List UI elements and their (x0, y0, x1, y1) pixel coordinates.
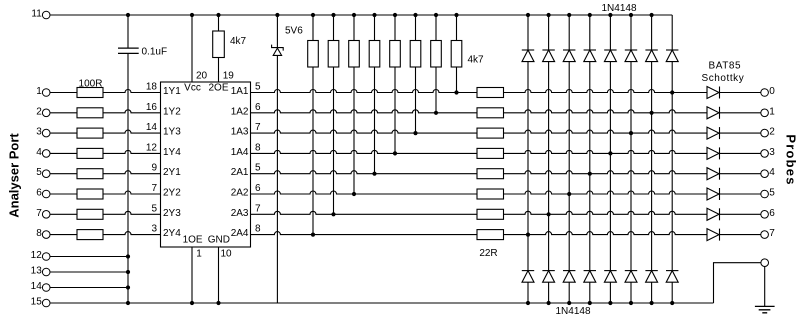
wire rail to top clamp diode column 7 (651, 15, 653, 50)
wire rail to top clamp diode column 3 (568, 15, 570, 50)
svg-text:7: 7 (255, 203, 261, 214)
wire rail to top clamp diode column 1 (527, 15, 529, 50)
wire series resistor row 3 to Schottky diode (504, 130, 708, 133)
junction top rail / diode column 2 (547, 13, 551, 17)
wire rail to resistor 4k7 (218, 15, 220, 31)
wire clamp column 4 (vertical) (589, 62, 591, 271)
svg-text:13: 13 (31, 265, 43, 276)
svg-text:0.1uF: 0.1uF (142, 46, 168, 57)
wire clamp column 7 (vertical) (651, 62, 653, 271)
wire resistor to IC pin 5 (hops ground bus) (103, 211, 161, 214)
wire Schottky diode to probe terminal 7 (720, 234, 762, 236)
svg-text:2Y2: 2Y2 (163, 188, 181, 199)
junction ground rail / pin 1 (190, 301, 194, 305)
wire IC pin 5 to series resistor row 1 (251, 90, 478, 93)
svg-text:10: 10 (220, 249, 232, 260)
diode BAT85 row 7 (707, 208, 719, 220)
svg-text:14: 14 (31, 281, 43, 292)
wire Schottky diode to probe terminal 3 (720, 152, 762, 154)
terminal 13 (ground) (42, 268, 50, 276)
wire series resistor row 7 to Schottky diode (504, 211, 708, 214)
wire terminal 7 to resistor (50, 213, 77, 215)
svg-text:14: 14 (146, 122, 158, 133)
ground symbol (755, 306, 775, 312)
junction top rail / diode column 1 (526, 13, 530, 17)
wire terminal 1 to resistor (50, 92, 77, 94)
terminal probe 6 (761, 211, 769, 219)
resistor 100R row 8 (77, 230, 103, 240)
terminal 11 (+5V) (42, 11, 50, 19)
wire Schottky diode to probe terminal 6 (720, 213, 762, 215)
junction ground bus / terminal 13 (126, 270, 130, 274)
junction pull-up column 2 / row 7 (331, 212, 335, 216)
wire rail to Vcc pin 20 (191, 15, 193, 82)
svg-text:2: 2 (36, 106, 42, 117)
svg-text:19: 19 (223, 71, 235, 82)
junction top rail / pull-up column 3 (352, 13, 356, 17)
svg-text:6: 6 (255, 183, 261, 194)
junction clamp column 7 / row 2 (650, 111, 654, 115)
terminal 14 (ground) (42, 284, 50, 292)
diode 1N4148 top clamp column 4 (584, 49, 596, 51)
resistor 4k7 pull-up column 6 (410, 41, 421, 68)
junction top rail / diode column 6 (629, 13, 633, 17)
terminal probe 0 (761, 89, 769, 97)
wire clamp column 3 (vertical) (568, 62, 570, 271)
junction top rail / zener branch (275, 13, 279, 17)
junction top rail / pull-up column 1 (311, 13, 315, 17)
wire Schottky diode to probe terminal 4 (720, 173, 762, 175)
svg-text:0: 0 (769, 86, 775, 97)
junction pull-up column 1 / row 8 (311, 233, 315, 237)
wire Schottky diode to probe terminal 2 (720, 132, 762, 134)
svg-text:1A1: 1A1 (231, 86, 249, 97)
svg-text:12: 12 (31, 250, 43, 261)
svg-text:1Y4: 1Y4 (163, 147, 181, 158)
svg-text:2OE: 2OE (208, 83, 228, 94)
terminal probe 7 (761, 231, 769, 239)
svg-text:1N4148: 1N4148 (602, 3, 637, 14)
junction pull-up column 8 / row 1 (454, 90, 458, 94)
svg-text:1A4: 1A4 (231, 147, 249, 158)
svg-text:2A1: 2A1 (231, 167, 249, 178)
resistor 4k7 pull-up column 3 (349, 41, 360, 68)
wire clamp column 2 (vertical) (548, 62, 550, 271)
wire rail to top clamp diode column 2 (548, 15, 550, 50)
junction pull-up column 3 / row 6 (352, 192, 356, 196)
svg-text:5: 5 (151, 203, 157, 214)
terminal 5 analyser port (42, 170, 50, 178)
wire resistor to IC pin 16 (hops ground bus) (103, 110, 161, 113)
diode BAT85 row 3 (707, 127, 719, 139)
terminal 7 analyser port (42, 211, 50, 219)
junction top rail / pull-up column 2 (331, 13, 335, 17)
svg-text:1A2: 1A2 (231, 106, 249, 117)
wire pull-up column 4 down to row 5 (374, 67, 376, 174)
resistor 4k7 pull-up column 5 (390, 41, 401, 68)
wire resistor to IC pin 7 (hops ground bus) (103, 191, 161, 194)
diode BAT85 row 1 (707, 87, 719, 99)
wire ground rail (bottom) (50, 302, 713, 304)
junction ground bus / terminal 12 (126, 254, 130, 258)
resistor 22R row 1 (477, 88, 504, 98)
terminal 4 analyser port (42, 150, 50, 158)
svg-text:22R: 22R (479, 248, 497, 259)
wire Schottky diode to probe terminal 0 (720, 92, 762, 94)
wire bottom clamp diode column 5 to ground rail (609, 282, 611, 303)
svg-text:2A2: 2A2 (231, 188, 249, 199)
svg-text:Probes: Probes (784, 134, 799, 185)
svg-text:6: 6 (36, 188, 42, 199)
wire pull-up column 5 down to row 4 (394, 67, 396, 153)
svg-text:2: 2 (769, 127, 775, 138)
wire clamp column 5 (vertical) (609, 62, 611, 271)
junction ground rail / clamp column 3 (567, 301, 571, 305)
resistor 22R row 4 (477, 148, 504, 158)
junction ground rail / clamp column 5 (608, 301, 612, 305)
diode 1N4148 bottom clamp column 1 (522, 270, 534, 272)
svg-text:1Y2: 1Y2 (163, 106, 181, 117)
svg-text:GND: GND (208, 235, 230, 246)
wire resistor to IC pin 14 (hops ground bus) (103, 130, 161, 133)
wire IC pin 5 to series resistor row 5 (251, 171, 478, 174)
svg-text:15: 15 (31, 296, 43, 307)
terminal 2 analyser port (42, 109, 50, 117)
wire series resistor row 8 to Schottky diode (504, 232, 708, 235)
wire rail to pull-up resistor column 4 (374, 15, 376, 41)
svg-text:8: 8 (36, 228, 42, 239)
junction pull-up column 7 / row 2 (434, 111, 438, 115)
diode 1N4148 top clamp column 2 (542, 49, 554, 51)
junction top rail / diode column 5 (608, 13, 612, 17)
svg-text:20: 20 (196, 71, 208, 82)
wire resistor to IC pin 9 (hops ground bus) (103, 171, 161, 174)
wire rail to top clamp diode column 5 (609, 15, 611, 50)
diode 1N4148 bottom clamp column 5 (604, 270, 616, 272)
resistor 4k7 pull-up column 4 (369, 41, 380, 68)
terminal 15 (ground) (42, 299, 50, 307)
junction pull-up column 6 / row 3 (413, 131, 417, 135)
terminal 1 analyser port (42, 89, 50, 97)
svg-text:5: 5 (255, 163, 261, 174)
wire terminal 2 to resistor (50, 112, 77, 114)
svg-text:16: 16 (146, 102, 158, 113)
wire rail to pull-up resistor column 8 (456, 15, 458, 41)
wire rail to top clamp diode column 4 (589, 15, 591, 50)
diode BAT85 row 2 (707, 107, 719, 119)
diode 1N4148 bottom clamp column 2 (542, 270, 554, 272)
svg-text:9: 9 (151, 163, 157, 174)
junction clamp column 3 / row 6 (567, 192, 571, 196)
svg-text:1: 1 (36, 86, 42, 97)
junction ground rail / clamp column 6 (629, 301, 633, 305)
wire zener to ground rail (276, 55, 278, 303)
junction clamp column 6 / row 3 (629, 131, 633, 135)
wire 1OE pin 1 to ground rail (191, 247, 193, 303)
terminal 6 analyser port (42, 190, 50, 198)
wire IC pin 8 to series resistor row 8 (251, 232, 478, 235)
junction clamp column 8 / row 1 (670, 90, 674, 94)
diode 1N4148 bottom clamp column 4 (584, 270, 596, 272)
wire rail to pull-up resistor column 1 (312, 15, 314, 41)
wire rail to top clamp diode column 8 (671, 15, 673, 50)
junction top rail / 4k7 pull-up (216, 13, 220, 17)
svg-text:3: 3 (151, 224, 157, 235)
diode BAT85 row 6 (707, 188, 719, 200)
junction top rail / pull-up column 8 (454, 13, 458, 17)
wire terminal 8 to resistor (50, 234, 77, 236)
junction pull-up column 4 / row 5 (372, 172, 376, 176)
junction top rail / pull-up column 4 (372, 13, 376, 17)
wire series resistor row 1 to Schottky diode (504, 90, 708, 93)
junction top rail / diode column 3 (567, 13, 571, 17)
wire rail to pull-up resistor column 6 (415, 15, 417, 41)
wire clamp column 1 (vertical) (527, 62, 529, 271)
wire ground rail up to probe ground terminal (714, 263, 762, 303)
diode BAT85 row 8 (707, 229, 719, 241)
junction clamp column 2 / row 7 (547, 212, 551, 216)
diode 1N4148 bottom clamp column 7 (645, 270, 657, 272)
terminal probe 4 (761, 170, 769, 178)
diode 1N4148 top clamp column 7 (645, 49, 657, 51)
junction ground rail / clamp column 8 (670, 301, 674, 305)
wire GND pin 10 to ground rail (218, 247, 220, 303)
terminal probe 1 (761, 109, 769, 117)
junction clamp column 5 / row 4 (608, 151, 612, 155)
resistor 4k7 pull-up column 7 (431, 41, 442, 68)
junction clamp column 1 / row 8 (526, 233, 530, 237)
resistor 22R row 8 (477, 230, 504, 240)
wire bottom clamp diode column 6 to ground rail (630, 282, 632, 303)
svg-text:4k7: 4k7 (468, 55, 485, 66)
wire pull-up column 3 down to row 6 (353, 67, 355, 194)
wire resistor to IC pin 3 (hops ground bus) (103, 232, 161, 235)
terminal 3 analyser port (42, 129, 50, 137)
svg-text:4: 4 (769, 167, 775, 178)
wire clamp column 8 (vertical) (671, 62, 673, 271)
resistor 22R row 6 (477, 189, 504, 199)
svg-text:6: 6 (255, 102, 261, 113)
svg-text:6: 6 (769, 208, 775, 219)
svg-text:Analyser Port: Analyser Port (7, 133, 22, 218)
wire probe ground terminal to ground symbol (764, 266, 766, 306)
wire rail to pull-up resistor column 7 (435, 15, 437, 41)
svg-text:100R: 100R (79, 79, 103, 90)
resistor 4k7 pull-up column 1 (308, 41, 319, 68)
wire series resistor row 2 to Schottky diode (504, 110, 708, 113)
terminal probe ground (761, 259, 769, 267)
junction top rail / diode column 7 (650, 13, 654, 17)
wire IC pin 7 to series resistor row 7 (251, 211, 478, 214)
wire resistor 4k7 to pin 19 (218, 58, 220, 83)
wire Schottky diode to probe terminal 5 (720, 193, 762, 195)
diode BAT85 row 5 (707, 168, 719, 180)
svg-text:7: 7 (255, 122, 261, 133)
wire pull-up column 6 down to row 3 (415, 67, 417, 133)
svg-text:3: 3 (36, 127, 42, 138)
resistor 4k7 pull-up column 2 (328, 41, 339, 68)
wire bottom clamp diode column 7 to ground rail (651, 282, 653, 303)
wire pull-up column 2 down to row 7 (333, 67, 335, 214)
resistor 100R row 4 (77, 148, 103, 158)
svg-text:2A3: 2A3 (231, 208, 249, 219)
svg-text:12: 12 (146, 142, 158, 153)
svg-text:1Y1: 1Y1 (163, 86, 181, 97)
terminal probe 5 (761, 190, 769, 198)
wire Schottky diode to probe terminal 1 (720, 112, 762, 114)
diode 1N4148 bottom clamp column 6 (625, 270, 637, 272)
resistor 100R row 5 (77, 169, 103, 179)
svg-text:5: 5 (769, 188, 775, 199)
wire bottom clamp diode column 1 to ground rail (527, 282, 529, 303)
resistor 22R row 2 (477, 108, 504, 118)
wire rail to pull-up resistor column 5 (394, 15, 396, 41)
wire resistor to IC pin 18 (hops ground bus) (103, 90, 161, 93)
junction top rail / Vcc pin 20 (190, 13, 194, 17)
svg-text:7: 7 (36, 208, 42, 219)
wire series resistor row 6 to Schottky diode (504, 191, 708, 194)
resistor 100R row 6 (77, 189, 103, 199)
junction top rail / pull-up column 7 (434, 13, 438, 17)
svg-text:4: 4 (36, 147, 42, 158)
resistor 22R row 3 (477, 128, 504, 138)
wire rail to pull-up resistor column 3 (353, 15, 355, 41)
resistor 4k7 pull-up column 8 (451, 41, 462, 68)
wire IC pin 6 to series resistor row 2 (251, 110, 478, 113)
resistor 100R row 2 (77, 108, 103, 118)
terminal probe 2 (761, 129, 769, 137)
diode 1N4148 top clamp column 6 (625, 49, 637, 51)
wire rail to pull-up resistor column 2 (333, 15, 335, 41)
resistor 22R row 7 (477, 209, 504, 219)
wire terminal 13 to ground bus (50, 271, 128, 273)
junction ground rail / clamp column 4 (588, 301, 592, 305)
junction ground rail / clamp column 1 (526, 301, 530, 305)
svg-text:Vcc: Vcc (184, 83, 201, 94)
resistor 4k7 (2OE pull-up) (213, 31, 225, 58)
diode 1N4148 bottom clamp column 8 (666, 270, 678, 272)
svg-text:2Y4: 2Y4 (163, 228, 181, 239)
wire terminal 12 to ground bus (50, 256, 128, 258)
wire pull-up column 7 down to row 2 (435, 67, 437, 113)
wire terminal 4 to resistor (50, 152, 77, 154)
wire series resistor row 4 to Schottky diode (504, 150, 708, 153)
svg-text:BAT85: BAT85 (709, 61, 742, 72)
resistor 100R row 3 (77, 128, 103, 138)
wire bottom clamp diode column 8 to ground rail (671, 282, 673, 303)
zener diode 5V6 (272, 45, 284, 51)
capacitor C 0.1uF (118, 48, 139, 53)
svg-text:2Y1: 2Y1 (163, 167, 181, 178)
junction ground rail / pin 10 (216, 301, 220, 305)
diode BAT85 row 4 (707, 147, 719, 159)
wire capacitor to ground rail (vertical ground bus) (127, 53, 129, 303)
wire terminal 14 to ground bus (50, 287, 128, 289)
svg-text:1: 1 (769, 106, 775, 117)
terminal 12 (ground) (42, 253, 50, 261)
wire IC pin 6 to series resistor row 6 (251, 191, 478, 194)
wire terminal 5 to resistor (50, 173, 77, 175)
svg-text:8: 8 (255, 224, 261, 235)
wire pull-up column 1 down to row 8 (312, 67, 314, 235)
junction top rail / pull-up column 6 (413, 13, 417, 17)
svg-text:1A3: 1A3 (231, 127, 249, 138)
junction ground bus / ground rail (126, 301, 130, 305)
wire IC pin 7 to series resistor row 3 (251, 130, 478, 133)
wire terminal 3 to resistor (50, 132, 77, 134)
wire clamp column 6 (vertical) (630, 62, 632, 271)
terminal 8 analyser port (42, 231, 50, 239)
wire bottom clamp diode column 2 to ground rail (548, 282, 550, 303)
wire resistor to IC pin 12 (hops ground bus) (103, 150, 161, 153)
wire bottom clamp diode column 3 to ground rail (568, 282, 570, 303)
wire +5V top rail (50, 14, 672, 16)
junction clamp column 4 / row 5 (588, 172, 592, 176)
diode 1N4148 top clamp column 1 (522, 49, 534, 51)
svg-text:3: 3 (769, 147, 775, 158)
wire IC pin 8 to series resistor row 4 (251, 150, 478, 153)
svg-text:11: 11 (31, 9, 42, 20)
junction pull-up column 5 / row 4 (393, 151, 397, 155)
junction ground bus / terminal 14 (126, 285, 130, 289)
svg-text:8: 8 (255, 142, 261, 153)
wire terminal 6 to resistor (50, 193, 77, 195)
junction top rail / pull-up column 5 (393, 13, 397, 17)
svg-text:5V6: 5V6 (285, 26, 303, 37)
svg-text:5: 5 (255, 82, 261, 93)
diode 1N4148 top clamp column 8 (666, 49, 678, 51)
svg-text:Schottky: Schottky (702, 73, 745, 84)
resistor 22R row 5 (477, 169, 504, 179)
junction top rail / diode column 4 (588, 13, 592, 17)
svg-text:1Y3: 1Y3 (163, 127, 181, 138)
junction ground rail / clamp column 7 (650, 301, 654, 305)
wire rail to capacitor (127, 15, 129, 48)
svg-text:2Y3: 2Y3 (163, 208, 181, 219)
svg-text:1N4148: 1N4148 (556, 306, 591, 317)
diode 1N4148 bottom clamp column 3 (563, 270, 575, 272)
wire rail to zener (276, 15, 278, 48)
svg-text:5: 5 (36, 167, 42, 178)
wire pull-up column 8 down to row 1 (456, 67, 458, 93)
op-amp-style IC body U1 (octal buffer) (161, 82, 251, 247)
svg-text:7: 7 (151, 183, 157, 194)
terminal probe 3 (761, 150, 769, 158)
svg-text:4k7: 4k7 (230, 36, 247, 47)
svg-text:1: 1 (196, 249, 202, 260)
resistor 100R row 7 (77, 209, 103, 219)
svg-text:7: 7 (769, 228, 775, 239)
diode 1N4148 top clamp column 5 (604, 49, 616, 51)
wire series resistor row 5 to Schottky diode (504, 171, 708, 174)
junction ground rail / clamp column 2 (547, 301, 551, 305)
svg-text:1OE: 1OE (183, 235, 203, 246)
svg-text:2A4: 2A4 (231, 228, 249, 239)
svg-text:18: 18 (146, 82, 158, 93)
wire bottom clamp diode column 4 to ground rail (589, 282, 591, 303)
wire rail to top clamp diode column 6 (630, 15, 632, 50)
junction top rail / ground-cap branch (126, 13, 130, 17)
diode 1N4148 top clamp column 3 (563, 49, 575, 51)
resistor 100R row 1 (77, 88, 103, 98)
